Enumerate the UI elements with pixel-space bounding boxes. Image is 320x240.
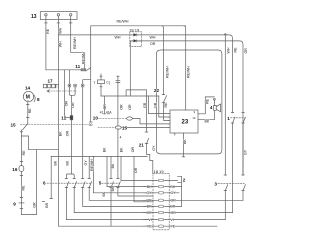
svg-text:BK: BK (102, 191, 106, 196)
svg-text:GR: GR (33, 202, 37, 208)
horn upper wire (200, 97, 215, 114)
svg-text:OR: OR (170, 211, 176, 215)
svg-text:RE/WH: RE/WH (90, 159, 94, 171)
wire 21 switch staircase (145, 132, 153, 174)
svg-text:WH: WH (150, 36, 156, 40)
svg-text:15: 15 (11, 123, 17, 128)
RE wire lower to R6 corner (232, 123, 234, 213)
svg-text:WH: WH (59, 41, 63, 47)
vertical WH right wire (224, 35, 226, 175)
oval contact upper (127, 117, 133, 120)
svg-text:VI: VI (170, 218, 173, 222)
wire x64 to 12 (65, 70, 71, 118)
svg-text:GY: GY (243, 149, 247, 155)
motor wire down (27, 102, 29, 124)
svg-text:RE/WH: RE/WH (81, 52, 85, 64)
wire horizontal to connector 11 (46, 69, 81, 71)
svg-text:GY: GY (146, 191, 152, 195)
svg-text:RE/WH: RE/WH (166, 66, 170, 78)
svg-text:BR: BR (170, 205, 175, 209)
switch 6 contact c (82, 179, 86, 188)
row R3 leads (144, 192, 180, 194)
terminal 41 drop (104, 96, 106, 114)
svg-text:WH: WH (227, 47, 231, 53)
bridge legs (66, 174, 74, 179)
svg-text:5: 5 (99, 181, 102, 186)
motor bracket 8 (34, 95, 35, 101)
svg-text:30: 30 (89, 123, 93, 127)
capacitor bars (116, 80, 120, 82)
dashed link 10 to oval upper (97, 118, 127, 120)
pin tick WH (57, 22, 60, 24)
svg-text:BK: BK (147, 185, 152, 189)
switch6 wire a lower to R7 (66, 188, 153, 220)
wire BK stub below 23 (182, 135, 184, 157)
svg-text:BK: BK (53, 160, 57, 165)
svg-text:BK: BK (65, 160, 69, 165)
wire WH line from box13 (58, 34, 130, 36)
svg-text:BK: BK (111, 163, 115, 168)
connector 17 wiper dashed (48, 90, 76, 92)
wire 12sq bottom to L1 and bridge drop (71, 120, 73, 174)
svg-text:BK: BK (59, 131, 63, 136)
svg-text:GY: GY (152, 145, 156, 151)
box 23 (170, 110, 198, 133)
tick BK stub (182, 156, 185, 158)
wire WH line right of diodes to RE corner (142, 35, 233, 113)
connector row symbols (157, 179, 164, 227)
svg-text:OR: OR (146, 199, 152, 203)
horn top pin (214, 98, 216, 100)
GR wire to R4 corner (242, 191, 244, 201)
svg-text:RE: RE (22, 150, 26, 156)
drop x93 REWH wire to R3 (93, 157, 153, 193)
fuse 16 ticks (20, 162, 23, 176)
svg-text:OR: OR (103, 104, 107, 110)
row R4 leads (144, 199, 244, 201)
svg-text:RE: RE (205, 98, 209, 104)
svg-text:OR: OR (150, 42, 156, 46)
wire RE from 13 down (45, 16, 47, 70)
ignition riser to 30 (90, 70, 92, 122)
drop x134 OR wire (134, 157, 153, 202)
svg-text:16: 16 (12, 167, 18, 172)
row R6 leads (144, 212, 233, 214)
switch 5 dashed (102, 182, 120, 184)
row R2 leads (144, 186, 182, 188)
switch 1 contact RE (231, 113, 235, 124)
switch 3 dashed link (218, 182, 244, 184)
svg-text:BK: BK (205, 120, 210, 124)
wire RE/WH riser and top line (91, 26, 186, 70)
wire WH BK from 13 down to L1 and corner to YE row (58, 16, 153, 226)
fuse 16 (19, 166, 24, 172)
switch 6 contact b (73, 179, 77, 188)
svg-text:WH: WH (115, 36, 121, 40)
switch 3 contact GR (242, 175, 246, 191)
svg-text:1: 1 (227, 116, 230, 121)
drop x89 wire to R4 (89, 157, 153, 201)
svg-text:2: 2 (183, 177, 186, 182)
svg-text:15: 15 (122, 125, 128, 130)
svg-text:VI: VI (148, 218, 151, 222)
drop x107 BK to R2 (107, 157, 153, 187)
pin tick RE/WH (69, 22, 72, 24)
svg-text:RE: RE (46, 28, 50, 34)
svg-text:C(: C( (106, 81, 110, 85)
switch 5 contact a (110, 179, 114, 188)
svg-text:9: 9 (13, 201, 16, 206)
svg-text:BK: BK (170, 185, 175, 189)
wire oval lower to 23 pin5 (122, 127, 169, 129)
svg-text:41: 41 (100, 111, 104, 115)
capacitor wire (117, 76, 119, 126)
svg-text:22: 22 (154, 88, 160, 93)
pin 17-a square (68, 84, 71, 87)
box 23 right pins (198, 114, 200, 120)
component 12 square (70, 116, 73, 120)
left wire down and bottom loop (21, 130, 36, 215)
terminal circle 13-1 (45, 14, 47, 16)
svg-text:6: 6 (43, 181, 46, 186)
switch 5 contact b (117, 179, 121, 188)
svg-text:4: 4 (120, 135, 122, 139)
ticks 41 41A (103, 113, 110, 115)
svg-text:GR: GR (143, 102, 147, 108)
svg-text:18 19: 18 19 (129, 27, 140, 32)
svg-text:BK: BK (119, 147, 123, 152)
connector 17 squares (43, 84, 46, 88)
horn 4 body (214, 104, 221, 112)
fuse 9 element (19, 202, 24, 204)
wire OR line from diodes to GR corner (130, 41, 243, 175)
big rounded box right (156, 50, 222, 154)
svg-text:WH: WH (59, 27, 63, 33)
fuse 9 ticks (20, 198, 23, 209)
switch 22 ticks (162, 95, 165, 103)
WH wire to R7 corner (224, 191, 226, 220)
svg-text:10: 10 (192, 116, 195, 120)
switch 15 blade (23, 124, 28, 130)
svg-text:BK: BK (183, 139, 187, 144)
svg-text:14: 14 (25, 85, 31, 90)
motor 14 (23, 91, 33, 101)
switch 6 contact a (65, 179, 69, 188)
oval contact lower (115, 126, 121, 129)
svg-text:GY: GY (84, 160, 88, 166)
fuse 7 ticks (100, 76, 102, 87)
pin tick RE (45, 22, 48, 24)
svg-text:GY: GY (170, 191, 176, 195)
long horizontal L1 (51, 156, 147, 158)
horn lower wire (200, 110, 215, 119)
svg-text:11: 11 (75, 64, 80, 69)
vertical x130 OR riser to h78 (129, 41, 131, 96)
svg-text:BK: BK (103, 147, 107, 152)
tick 43 (42, 201, 44, 203)
terminal circle 13-3 (70, 14, 72, 16)
svg-text:18 19: 18 19 (154, 169, 165, 174)
svg-text:21: 21 (139, 143, 145, 148)
crossover hop on WH line (224, 34, 226, 35)
switch 5 wire right (118, 129, 153, 196)
wire pin c down through L1 to R5 (83, 87, 153, 206)
row R7 leads (144, 219, 226, 221)
fuse 7 body (98, 80, 105, 84)
connector 18 19 dashed box (153, 174, 169, 230)
tick left wire (20, 131, 23, 133)
svg-text:17: 17 (48, 78, 54, 83)
switch 22 blade (164, 96, 167, 103)
drop x121 BK to R1 (121, 157, 153, 181)
svg-text:OR: OR (65, 130, 69, 136)
svg-text:7: 7 (93, 81, 95, 85)
diode D2 (134, 40, 137, 43)
svg-text:9: 9 (194, 110, 196, 114)
box 23 bottom pins (175, 133, 184, 135)
svg-text:OR: OR (128, 104, 132, 110)
svg-text:41A: 41A (106, 111, 113, 115)
row R8 leads (144, 225, 218, 227)
wiper arrow head (47, 90, 49, 92)
svg-text:3: 3 (214, 181, 217, 186)
drop RE/WH wire B into box 23 (184, 26, 186, 110)
svg-text:RE: RE (164, 102, 168, 108)
bridge pin c to ignition riser (83, 79, 91, 84)
svg-text:12: 12 (61, 116, 67, 121)
U link pins to 12 (69, 87, 75, 116)
svg-text:OR: OR (134, 167, 138, 173)
svg-text:RE: RE (28, 108, 32, 114)
switch6 wire b lower to R6 (74, 188, 153, 213)
wire h78 (101, 95, 159, 97)
wire oval upper to 23 pin4 (132, 119, 168, 124)
terminal circle 13-2 (57, 14, 59, 16)
svg-text:BR: BR (45, 202, 49, 207)
dashed link to oval 15 (98, 127, 116, 129)
svg-text:23: 23 (182, 120, 189, 126)
switch 5 wire left (110, 157, 112, 227)
motor wire ticks (27, 105, 30, 118)
horn top lead (213, 100, 215, 105)
svg-text:YE: YE (170, 225, 175, 229)
connector 17 bracket (56, 84, 58, 88)
svg-text:YE: YE (147, 225, 152, 229)
switch blade at 11 (86, 68, 91, 71)
bracket 2 (178, 176, 182, 206)
pin 17-b square (74, 84, 77, 87)
svg-text:OR: OR (146, 211, 152, 215)
pin 17-c square (81, 84, 84, 87)
svg-text:OR: OR (119, 104, 123, 110)
switch 6 dashed (47, 182, 91, 184)
wire RE/WH from 13 with jog (71, 16, 85, 69)
branch step (21, 136, 58, 150)
row R5 leads (144, 205, 182, 207)
svg-text:BK: BK (111, 186, 115, 191)
wire drop to pin a (68, 70, 70, 84)
tick 30 (89, 121, 92, 123)
wire GR drop2 to 23 pin2 (159, 96, 169, 117)
svg-text:RE/WH: RE/WH (186, 66, 190, 78)
svg-text:OR: OR (64, 101, 68, 107)
row R1 leads (153, 180, 178, 182)
switch 6 contact d (88, 179, 92, 188)
diode box 18 19 dashed (130, 32, 142, 47)
step to 21 wire (126, 90, 146, 132)
diode leads (130, 35, 142, 41)
svg-text:BR: BR (147, 205, 152, 209)
GR wire between sw1 sw3 (242, 123, 244, 175)
box 23 left pin ticks (169, 114, 171, 128)
switch 1 contact GR (242, 113, 246, 124)
switch 3 contact WH (224, 175, 228, 191)
svg-text:OR: OR (170, 199, 176, 203)
svg-text:RE: RE (234, 47, 238, 53)
dashed 15 ignition link (20, 123, 88, 125)
capacitor tick (117, 75, 119, 77)
svg-text:10: 10 (93, 115, 99, 120)
connector 11 body (81, 69, 86, 71)
svg-text:GR: GR (154, 102, 158, 108)
svg-text:8: 8 (37, 97, 40, 102)
svg-text:OR: OR (131, 147, 135, 153)
svg-text:OR: OR (71, 102, 75, 108)
svg-text:RE: RE (22, 185, 26, 191)
svg-text:4: 4 (210, 105, 213, 110)
terminal BR stub (50, 157, 53, 199)
wire GR drop1 to 23 pin1 (149, 96, 169, 114)
svg-text:RE/WH: RE/WH (117, 20, 129, 24)
diode D1 (134, 34, 137, 37)
svg-text:GR: GR (244, 48, 248, 54)
wire RE below 22 to box 23 pin3 (164, 102, 169, 120)
drop RE/WH wire A with round corner (162, 26, 164, 95)
svg-text:RE/WH: RE/WH (73, 37, 77, 49)
svg-text:13: 13 (31, 14, 37, 20)
connector block 13 (40, 12, 77, 20)
switch 1 dashed link (231, 117, 245, 119)
fuse 7 wire vertical (100, 74, 102, 96)
